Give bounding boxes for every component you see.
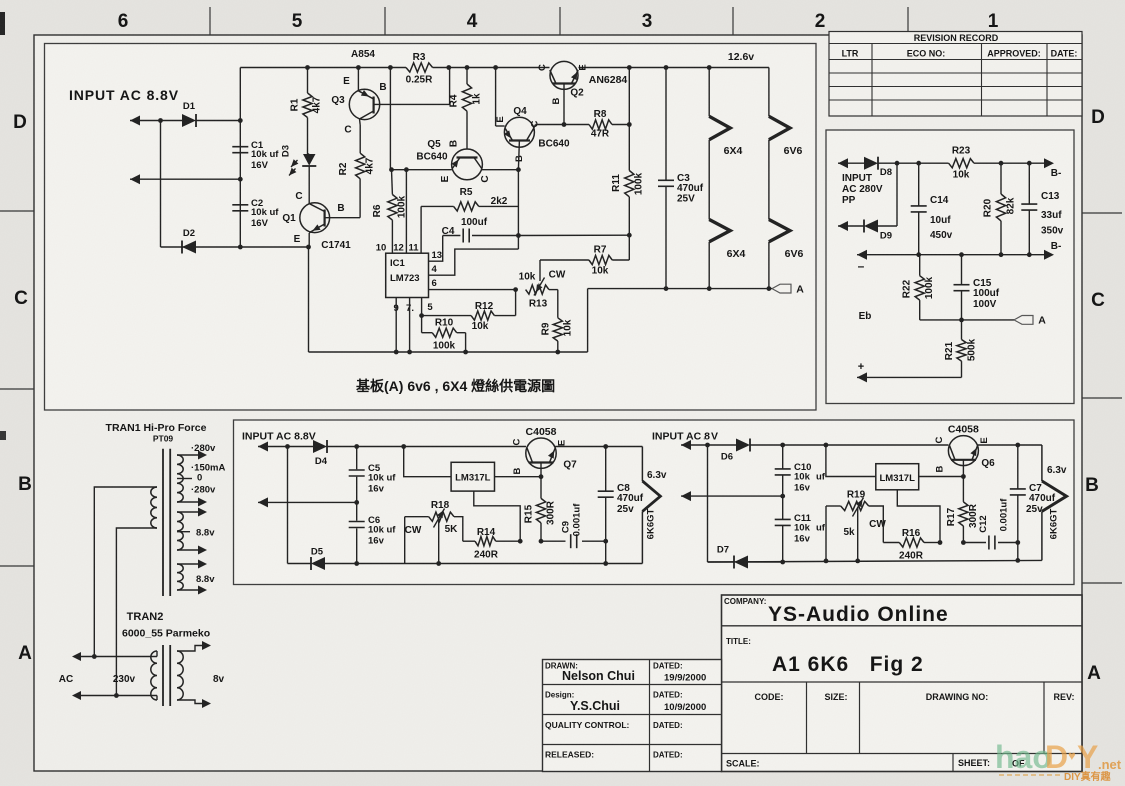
capacitor C11 bbox=[775, 513, 826, 545]
input arrow heater L1 bbox=[258, 442, 290, 452]
arrow B- rail left bbox=[857, 250, 867, 260]
wire rail to Q3 emitter bbox=[357, 68, 359, 91]
wire D1 to rail bbox=[196, 118, 243, 123]
input arrow 280V upper bbox=[838, 158, 864, 168]
zone letter B right bbox=[1085, 475, 1099, 496]
resistor R1 bbox=[290, 68, 323, 118]
wire heater bottom rail left bbox=[357, 563, 643, 565]
transistor Q7 bbox=[512, 426, 578, 474]
resistor R7 bbox=[589, 235, 629, 276]
wire to D4 bbox=[288, 446, 314, 448]
drawn by bbox=[545, 662, 706, 684]
label INPUT AC 8.8V left bbox=[242, 431, 316, 443]
regulator LM317L left bbox=[451, 462, 494, 491]
zone letter A right bbox=[1087, 663, 1101, 684]
resistor R21 bbox=[944, 320, 978, 378]
diode D1 bbox=[182, 101, 196, 127]
wire pin13 stair bbox=[429, 236, 443, 262]
op-amp IC1 LM723 bbox=[386, 253, 429, 297]
wire R11 rail vertical bbox=[627, 68, 632, 238]
node junction input upper bbox=[158, 118, 163, 123]
connector A main bbox=[772, 284, 804, 296]
zone tick marks top bbox=[210, 7, 908, 35]
zone letter D left bbox=[13, 112, 27, 133]
wire R6 to IC pin 10 bbox=[391, 220, 393, 253]
wire Q4 base down bbox=[518, 141, 519, 170]
resistor R8 bbox=[564, 109, 632, 140]
wire R1 to D3 bbox=[308, 118, 310, 155]
zone letter D right bbox=[1091, 107, 1105, 128]
resistor R22 bbox=[902, 255, 936, 320]
zone letter B left bbox=[18, 474, 32, 495]
capacitor C7 bbox=[1010, 445, 1056, 563]
TRAN1 8.8v winding mid bbox=[177, 508, 215, 555]
resistor R6 bbox=[372, 195, 408, 221]
wire Q5 collector bbox=[482, 167, 521, 172]
diode D6 bbox=[721, 439, 750, 463]
zone letter A left bbox=[18, 643, 32, 664]
resistor R5 bbox=[421, 187, 518, 211]
wire A rail bottom bbox=[588, 288, 772, 290]
transformer TRAN1 labels bbox=[106, 422, 207, 444]
transistor Q6 bbox=[934, 424, 995, 473]
input arrow heater R2 bbox=[681, 491, 785, 501]
TRAN1 primary winding bbox=[94, 487, 157, 696]
TRAN2 primary winding bbox=[74, 651, 157, 700]
node junctions Q5 emitter wire bbox=[389, 167, 409, 172]
resistor R16 bbox=[869, 506, 940, 562]
diode D8 bbox=[864, 157, 892, 178]
wire ground rail bbox=[309, 289, 588, 352]
company name bbox=[724, 597, 949, 626]
wire heater bottom rail right bbox=[708, 560, 1042, 562]
resistor R10 bbox=[422, 318, 468, 355]
diode D4 bbox=[313, 440, 328, 467]
title text bbox=[726, 637, 924, 676]
released bbox=[545, 750, 683, 760]
label A854 bbox=[351, 49, 375, 60]
scan mark top-left edge bbox=[0, 12, 6, 440]
potentiometer R18 bbox=[405, 500, 458, 566]
capacitor C3 bbox=[658, 68, 704, 292]
TRAN2 secondary winding bbox=[177, 641, 225, 708]
resistor R2 bbox=[338, 153, 376, 179]
zone number 6 bbox=[118, 11, 129, 32]
wire pin 9 bbox=[394, 298, 399, 355]
input arrow heater R1 bbox=[681, 440, 710, 450]
wire Q5C/R5/C4 vertical bbox=[516, 170, 521, 249]
heater 6X4 upper bbox=[709, 68, 742, 220]
wire LM317 out right bbox=[919, 474, 966, 479]
capacitor C1 bbox=[232, 140, 279, 171]
wire B- top rail bbox=[919, 161, 1046, 166]
capacitor C14 bbox=[911, 163, 953, 255]
zone letter C right bbox=[1091, 290, 1105, 311]
drawn-by block frame bbox=[543, 660, 722, 772]
capacitor C5 bbox=[349, 463, 397, 495]
heater 6V6 upper bbox=[769, 68, 803, 220]
wire Q1 emitter down bbox=[309, 232, 311, 248]
wire Q7 emitter row bbox=[555, 444, 642, 449]
scale sheet labels bbox=[726, 758, 1025, 769]
transistor Q3 bbox=[331, 76, 386, 136]
wire pin 12 vertical bbox=[405, 170, 407, 254]
wire D3 to Q1 collector bbox=[308, 166, 310, 204]
wire D6 to Q6 bbox=[750, 443, 948, 448]
pin labels bottom bbox=[394, 302, 434, 314]
transformer TRAN2 labels bbox=[122, 611, 210, 640]
transistor Q2 bbox=[537, 61, 627, 104]
wire plus rail bbox=[857, 376, 962, 378]
regulator LM317L right bbox=[876, 464, 919, 490]
wire Eb row to A bbox=[920, 318, 1014, 323]
caption board A bbox=[356, 378, 555, 394]
capacitor C6 bbox=[349, 515, 397, 547]
label INPUT AC 8.8V right bbox=[652, 431, 718, 443]
watermark haoDIY.net bbox=[995, 739, 1122, 783]
wire pin 7 bbox=[407, 298, 412, 355]
wire pin4 stair bbox=[429, 249, 519, 275]
wire C4 row to R11 bbox=[518, 234, 629, 236]
wire D7 row bbox=[708, 561, 783, 563]
code size drawing rev labels bbox=[755, 692, 1075, 702]
wire Q4 collector to Q2 base node bbox=[534, 125, 564, 129]
revision record table bbox=[829, 32, 1082, 117]
potentiometer R13 bbox=[519, 260, 589, 310]
wire D8 to rail bbox=[878, 161, 921, 166]
wire LM317 adj left bbox=[474, 491, 523, 543]
label Eb bbox=[859, 311, 872, 322]
transformer TRAN1 core bbox=[163, 449, 170, 596]
TRAN2 primary arrows bbox=[72, 652, 81, 700]
resistor R23 bbox=[949, 146, 974, 181]
transistor Q4 bbox=[495, 106, 570, 162]
TRAN1 HT secondary winding bbox=[177, 451, 207, 507]
wire Q6 base bbox=[962, 460, 964, 477]
wire pin 5 vertical bbox=[419, 298, 424, 333]
output arrow B- bottom bbox=[1044, 241, 1061, 260]
resistor R11 bbox=[611, 171, 645, 197]
wire C10C11 rail bbox=[780, 445, 785, 564]
wire Q5 emitter row bbox=[392, 169, 452, 171]
schematic mid box frame bbox=[234, 420, 1075, 585]
capacitor C2 bbox=[232, 198, 279, 229]
connector 6.3v right bbox=[1042, 445, 1067, 560]
wire input upper to D1 bbox=[161, 120, 183, 122]
heater 6V6 lower bbox=[767, 220, 804, 292]
title block frame bbox=[722, 595, 1083, 772]
heater 6X4 lower bbox=[707, 220, 746, 292]
capacitor C9 bbox=[541, 503, 608, 548]
wire D9 up to D8 node bbox=[878, 163, 897, 226]
wire B- bottom rail bbox=[857, 252, 1046, 257]
wire R4 to Q5 base bbox=[466, 111, 468, 149]
wire Q1 base to R2 bbox=[325, 179, 360, 218]
label plus bbox=[858, 361, 864, 373]
zone tick marks left bbox=[0, 211, 34, 566]
resistor R4 bbox=[449, 68, 483, 112]
label minus bbox=[858, 259, 865, 273]
transistor Q1 bbox=[282, 191, 351, 251]
wire pin 11 vertical bbox=[420, 206, 422, 253]
pin labels top bbox=[376, 243, 420, 254]
capacitor C4 bbox=[442, 217, 519, 243]
design by bbox=[545, 691, 706, 714]
capacitor C13 bbox=[1021, 163, 1063, 255]
diode D2 bbox=[182, 228, 196, 254]
pin labels right bbox=[432, 250, 443, 289]
wire rail to R6 bbox=[390, 68, 392, 195]
output arrow B- top bbox=[1044, 158, 1061, 179]
wire to D6 bbox=[708, 444, 737, 446]
wire pin 6 row bbox=[429, 287, 518, 292]
resistor R20 bbox=[983, 163, 1017, 255]
wire top 12.6v rail bbox=[240, 65, 769, 70]
wire Q1 emitter to ground rail bbox=[308, 247, 310, 352]
diode D5 bbox=[311, 547, 325, 571]
wire D4 to Q7 bbox=[327, 444, 526, 449]
input terminal arrow upper bbox=[130, 116, 161, 126]
resistor R14 bbox=[454, 517, 520, 561]
zone letter C left bbox=[14, 288, 28, 309]
caption INPUT AC 8.8V bbox=[69, 87, 179, 103]
zone number 1 bbox=[988, 11, 999, 32]
connector A boxB bbox=[1014, 315, 1046, 327]
transformer TRAN2 core bbox=[163, 645, 170, 706]
input arrow heater L2 bbox=[258, 497, 359, 507]
wire LM317 out left bbox=[495, 474, 544, 479]
wire input vertical bbox=[160, 121, 162, 248]
label INPUT AC 280V PP bbox=[842, 173, 883, 206]
TRAN1 HT labels bbox=[191, 443, 225, 496]
wire Q2 base down bbox=[562, 84, 567, 127]
diode D7 bbox=[717, 545, 748, 569]
zone tick marks right bbox=[1082, 213, 1122, 583]
input terminal arrow lower bbox=[130, 174, 243, 184]
resistor R17 bbox=[946, 477, 979, 545]
wire C1C2 rail vertical bbox=[239, 68, 241, 248]
wire ac left vertical bbox=[287, 447, 289, 564]
zone number 2 bbox=[815, 11, 826, 32]
connector 6.3v left bbox=[642, 447, 667, 564]
arrow plus rail bbox=[857, 372, 867, 382]
capacitor C15 bbox=[954, 255, 1000, 320]
wire Q3 collector to R2 bbox=[359, 119, 362, 153]
wire C5C6 rail bbox=[354, 447, 359, 566]
TRAN1 8.8v winding bottom bbox=[177, 560, 215, 595]
transistor Q5 bbox=[416, 139, 491, 183]
capacitor C8 bbox=[598, 447, 644, 566]
wire D2 row bbox=[161, 245, 311, 250]
resistor R15 bbox=[524, 477, 557, 544]
capacitor C12 bbox=[963, 498, 1020, 550]
wire Q7 base bbox=[540, 463, 542, 477]
resistor R9 bbox=[541, 290, 574, 355]
wire Q3 base bbox=[374, 68, 450, 105]
wire LM317 in left bbox=[404, 447, 451, 477]
resistor R3 bbox=[406, 52, 433, 86]
schematic box A frame bbox=[45, 44, 817, 411]
input arrow 280V lower bbox=[838, 221, 864, 231]
capacitor C10 bbox=[775, 462, 826, 494]
schematic box B frame bbox=[826, 130, 1074, 404]
label AC 230v bbox=[59, 674, 136, 685]
zone number 4 bbox=[467, 11, 478, 32]
zone number 3 bbox=[642, 11, 653, 32]
quality control bbox=[545, 720, 683, 730]
wire LM317 in right bbox=[826, 445, 876, 477]
resistor R12 bbox=[422, 290, 516, 332]
wire D5 row bbox=[288, 563, 357, 565]
potentiometer R19 bbox=[824, 490, 887, 564]
wire LM317 adj right bbox=[897, 490, 942, 545]
wire ac right vertical bbox=[707, 445, 709, 562]
led D3 bbox=[281, 145, 317, 176]
wire Q6 emitter row bbox=[978, 443, 1042, 448]
wire rail to Q4 emitter bbox=[496, 68, 505, 127]
label 12.6v bbox=[728, 51, 754, 63]
diode D9 bbox=[864, 220, 892, 242]
zone number 5 bbox=[292, 11, 303, 32]
